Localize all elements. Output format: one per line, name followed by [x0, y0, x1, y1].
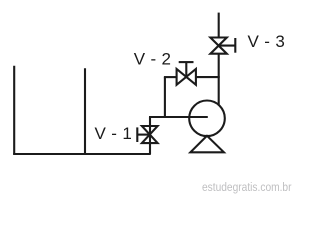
valve V-1 [137, 126, 157, 143]
valve V-3 [210, 38, 235, 54]
wire: V-1 drop pipe [149, 117, 151, 154]
wire: pump suction line [149, 116, 208, 118]
svg-text:V - 1: V - 1 [95, 124, 133, 143]
valve V-2 [177, 62, 196, 85]
svg-text:estudegratis.com.br: estudegratis.com.br [202, 180, 292, 194]
wire: bypass horizontal right segment [196, 76, 220, 78]
pump base triangle [190, 136, 224, 153]
svg-text:V - 3: V - 3 [248, 32, 286, 51]
pump P-1 circle [189, 101, 225, 137]
wire: bypass horizontal left segment [164, 76, 177, 78]
svg-text:V - 2: V - 2 [134, 49, 172, 68]
tank left wall [13, 66, 15, 154]
tank right wall [84, 68, 86, 154]
wire: top stub above V-3 [218, 13, 220, 38]
wire: discharge riser [218, 54, 220, 106]
tank bottom wire [13, 153, 151, 155]
wire: bypass left riser [164, 77, 166, 118]
